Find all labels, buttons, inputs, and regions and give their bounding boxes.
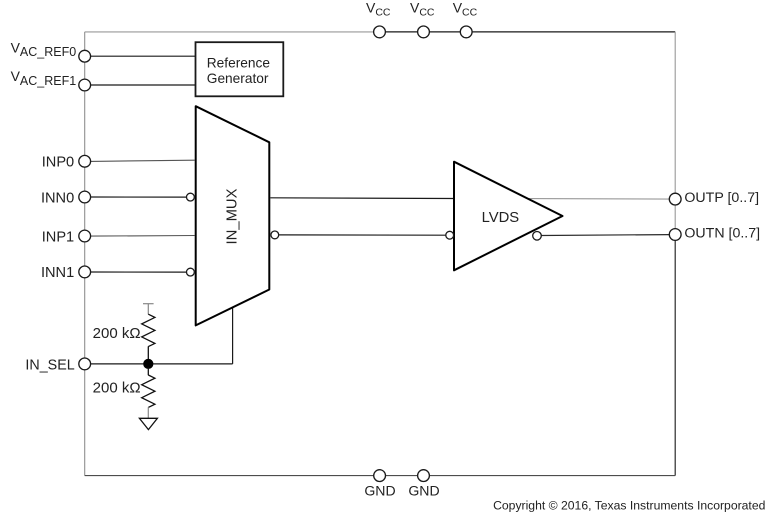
svg-text:VCC: VCC (453, 0, 478, 19)
svg-text:IN_MUX: IN_MUX (224, 188, 240, 244)
svg-text:LVDS: LVDS (482, 210, 520, 226)
svg-text:GND: GND (364, 483, 395, 499)
svg-text:VAC_REF0: VAC_REF0 (11, 39, 77, 59)
svg-text:Reference: Reference (207, 56, 270, 71)
svg-text:INP1: INP1 (42, 229, 74, 245)
svg-text:OUTP [0..7]: OUTP [0..7] (684, 190, 759, 206)
svg-text:Generator: Generator (207, 71, 269, 86)
svg-text:VCC: VCC (410, 0, 435, 19)
svg-text:VCC: VCC (366, 0, 391, 19)
svg-text:INN1: INN1 (41, 265, 74, 281)
svg-text:INP0: INP0 (42, 155, 74, 171)
svg-text:IN_SEL: IN_SEL (25, 357, 74, 373)
svg-text:OUTN [0..7]: OUTN [0..7] (684, 225, 760, 241)
svg-text:200 kΩ: 200 kΩ (93, 380, 141, 397)
svg-text:INN0: INN0 (41, 190, 74, 206)
svg-text:VAC_REF1: VAC_REF1 (11, 68, 77, 88)
svg-text:GND: GND (408, 483, 439, 499)
svg-text:Copyright © 2016, Texas Instru: Copyright © 2016, Texas Instruments Inco… (493, 499, 765, 513)
svg-text:200 kΩ: 200 kΩ (93, 325, 141, 342)
